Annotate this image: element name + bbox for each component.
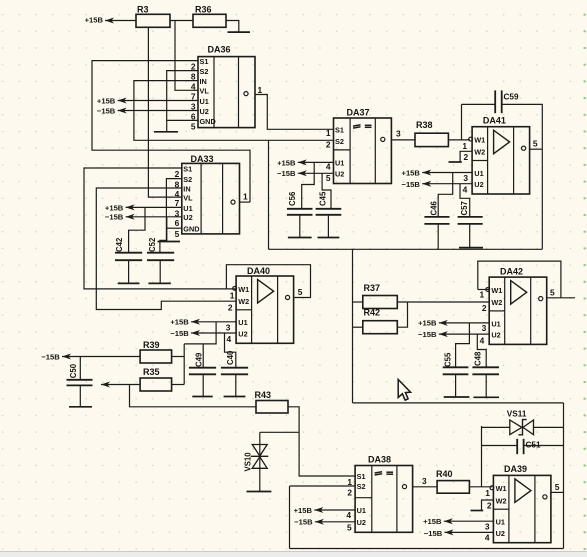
svg-text:R40: R40 [436,469,453,479]
power flag +15V (DA36 U1) [97,96,127,105]
power flag -15V (DA38 U2) [294,518,324,527]
svg-text:2: 2 [326,139,331,149]
svg-text:VS10: VS10 [244,452,253,472]
wire DA41 output rail down to mid rail [541,149,543,249]
wire DA37 output to R38 [391,139,415,141]
wire VS10 top to R43/DA38.S1 node [260,431,299,433]
power flag +15V (DA39 U1) [423,517,453,526]
ground bar (right of R36) [228,31,251,33]
wire DA36 S2 to ground [167,71,198,132]
power flag +15V (DA37 U1) [277,158,307,167]
svg-text:U1: U1 [183,204,192,213]
wire DA42 output pin 5 [547,297,575,299]
wire +15V to DA41 U1 [422,172,472,174]
power flag -15V (DA39 U2) [424,529,454,538]
svg-text:1: 1 [243,192,248,202]
ground bar (C56) [288,237,312,239]
resistor R35 [140,367,172,391]
wire -15V to DA37 U2 [298,172,334,174]
wire R43 right down to DA38 S1 [288,407,355,476]
wire C51 left [482,445,519,447]
svg-text:+15В: +15В [105,203,124,212]
power flag -15V (DA33 U2) [105,213,135,222]
ground bar (C52) [148,282,170,284]
svg-text:3: 3 [422,476,427,486]
ground bar (C50) [69,406,92,408]
svg-text:1: 1 [326,128,331,138]
svg-text:7: 7 [175,198,180,208]
power flag -15V (DA41 U2) [402,180,432,189]
capacitor C40 [221,350,248,396]
svg-text:S1: S1 [183,164,192,173]
svg-text:+15В: +15В [170,318,189,327]
ground bar (C40) [224,396,246,398]
svg-text:6: 6 [175,218,180,228]
resistor R37 [363,283,398,308]
capacitor C57 [458,201,483,247]
wire R39 right to node [172,356,185,358]
wire -15V to DA42 U2 [439,333,489,335]
wire DA33 output pin1 stub [240,201,251,203]
power flag +15V (DA33 U1) [105,203,135,212]
wire DA33 S2 to ground [166,179,181,242]
power flag +15V (DA40 U1) [170,318,200,327]
svg-text:4: 4 [485,533,490,543]
power flag +15V (DA38 U1) [294,506,324,515]
wire DA40 U1 down to R39/R35 node and C49 [184,322,216,344]
op-amp DA40 [233,266,294,343]
svg-text:4: 4 [326,162,331,172]
wire R3-R36 junction down to DA36 pin VL [175,21,198,91]
wire -15V to DA38 U2 [315,521,355,523]
svg-text:1: 1 [485,488,490,498]
svg-text:R3: R3 [137,4,149,14]
wire DA41 U2 to C57 [460,184,470,217]
bottom window bar [0,552,587,557]
wire feedback left segment to C59 [462,103,496,105]
svg-text:3: 3 [463,173,468,183]
power flag -15V (DA42 U2) [418,330,448,339]
node junction up to C59 feedback [461,104,463,139]
mouse cursor [398,380,410,401]
wire VS11 right [534,426,564,428]
svg-text:S2: S2 [335,137,344,146]
svg-text:1: 1 [480,289,485,299]
svg-text:U2: U2 [491,331,500,340]
svg-text:W2: W2 [474,148,485,157]
wire DA33 GND stub [166,227,181,229]
svg-text:+15В: +15В [423,517,442,526]
svg-text:DA37: DA37 [347,107,370,117]
wire rail drop down to bottom block [352,249,354,403]
svg-text:1: 1 [462,141,467,151]
svg-text:U1: U1 [200,97,209,106]
wire R42 right up to R37 wire [397,302,407,327]
transistor VS11 (bidirectional zener) [507,409,534,435]
svg-text:W1: W1 [238,285,249,294]
svg-text:R39: R39 [143,340,160,350]
power flag +15V (top left) [85,16,114,25]
ground bar (DA33) [158,241,181,243]
ground bar (C45) [318,237,340,239]
ground bar (C48) [473,396,499,398]
wire R38 to DA41 W1 [448,139,470,141]
svg-text:3: 3 [485,522,490,532]
wire DA33 U1 to C42 [129,207,145,252]
svg-text:2: 2 [228,302,233,312]
capacitor C46 [424,201,449,250]
wire -15V to DA36 U2 [118,110,198,112]
svg-text:−15В: −15В [41,352,60,361]
capacitor C55 [443,352,469,397]
DA42 feedback loop W1 to output [478,261,561,298]
wire DA38 output to R40 [413,486,438,488]
svg-text:C52: C52 [148,237,157,252]
wire DA33 U2 to C52 [160,217,167,253]
svg-text:DA33: DA33 [191,154,214,164]
resistor R36 [193,4,226,27]
wire R3 to R36 [170,20,193,22]
wire -15V to DA41 U2 [422,183,472,185]
svg-text:−15В: −15В [424,529,443,538]
op-amp DA39 [490,464,551,543]
svg-text:GND: GND [183,225,199,234]
arrow flag (R35 left) [101,382,110,388]
svg-text:4: 4 [463,184,468,194]
power flag -15V (DA36 U2) [97,106,127,115]
svg-text:S2: S2 [357,482,366,491]
wire VS11 left [482,426,510,428]
ground bar (C42) [118,282,140,284]
svg-text:+15В: +15В [294,506,313,515]
svg-text:4: 4 [191,82,196,92]
svg-text:S1: S1 [335,126,344,135]
wire bottom edge of bottom loop [290,548,564,550]
capacitor C45 [316,191,342,237]
svg-text:C48: C48 [473,351,482,366]
wire DA36 output pin1 to DA37 S1 [255,95,334,130]
wire -15V to DA40 U2 [191,332,236,334]
svg-text:VS11: VS11 [507,409,527,418]
svg-text:C42: C42 [115,237,124,252]
wire node vertical R39/R35 [183,344,185,385]
svg-text:DA39: DA39 [504,464,527,474]
svg-text:3: 3 [482,323,487,333]
DA40 feedback loop pin5 to W1 [226,265,310,298]
svg-text:U2: U2 [335,170,344,179]
wire R37 right to DA42 W2 [397,301,489,303]
wire +15V to DA42 U1 [439,322,489,324]
wire DA38 S2 [290,485,356,487]
svg-text:5: 5 [533,139,538,149]
svg-text:−15В: −15В [294,518,313,527]
svg-text:IN: IN [183,184,190,193]
svg-text:1: 1 [258,85,263,95]
resistor R43 [255,390,289,413]
wire +15V to DA40 U1 [191,321,236,323]
wire DA33 S1 loop to DA40 W1 [84,168,236,289]
svg-text:C55: C55 [444,352,453,367]
capacitor C59 [495,90,519,113]
wire -15V to DA39 U2 [445,531,494,533]
wire left edge up to DA38 S2 [289,486,291,549]
svg-text:W2: W2 [496,496,507,505]
svg-text:S2: S2 [200,67,209,76]
wire bottom rail of DA37/DA41 section [269,248,543,250]
svg-text:5: 5 [555,482,560,492]
svg-text:1: 1 [230,291,235,301]
resistor R3 [136,4,170,27]
svg-text:2: 2 [347,487,352,497]
svg-text:5: 5 [550,287,555,297]
svg-text:5: 5 [347,522,352,532]
svg-text:U2: U2 [496,529,505,538]
svg-text:+15В: +15В [402,168,421,177]
svg-text:U2: U2 [474,180,483,189]
power flag +15V (DA41 U1) [402,168,432,177]
svg-text:C40: C40 [226,350,235,365]
wire +15V to DA37 U1 [298,161,334,163]
ground bar (C49) [192,396,212,398]
IC DA36 (switch block) [191,45,255,132]
svg-text:5: 5 [298,287,303,297]
power flag -15V (DA37 U2) [277,169,307,178]
svg-text:U1: U1 [491,319,500,328]
svg-text:2: 2 [175,169,180,179]
svg-text:DA38: DA38 [368,455,391,465]
wire DA42 U1 to C55 [456,323,470,367]
wire DA41 output pin 5 [530,148,543,150]
svg-text:W1: W1 [496,484,507,493]
svg-text:S2: S2 [183,175,192,184]
capacitor C49 [189,352,216,396]
svg-text:U2: U2 [238,329,247,338]
svg-text:1: 1 [347,477,352,487]
wire +15V to DA33 U1 [126,206,182,208]
svg-text:W2: W2 [491,298,502,307]
power flag -15V (DA40 U2) [170,329,200,338]
wire junction DA37-S2 line down to rail [268,140,270,249]
wire DA42 W1 stub [478,289,489,291]
svg-text:2: 2 [487,500,492,510]
svg-text:C59: C59 [504,92,519,101]
svg-text:S1: S1 [200,57,209,66]
wire DA36 GND stub [167,119,198,121]
svg-text:DA40: DA40 [247,266,270,276]
ground bar (C55) [444,396,470,398]
svg-text:−15В: −15В [105,213,124,222]
svg-text:2: 2 [464,152,469,162]
svg-text:2: 2 [482,303,487,313]
wire -15V to DA33 U2 [126,216,182,218]
power flag +15V (DA42 U1) [418,318,448,327]
wire DA36 IN down and right to DA37 S2 [134,81,334,141]
svg-text:5: 5 [175,229,180,239]
wire C49 top lead [202,344,204,368]
capacitor C51 [517,439,541,454]
svg-text:U1: U1 [496,518,505,527]
svg-text:R42: R42 [364,307,381,317]
svg-text:IN: IN [200,77,207,86]
svg-text:4: 4 [480,336,485,346]
svg-text:R35: R35 [143,367,160,377]
svg-text:4: 4 [227,334,232,344]
wire R35 node down to R43 [130,385,257,407]
capacitor C42 [115,237,142,283]
DA41 W2 ground stub [460,151,472,162]
svg-text:R38: R38 [416,120,433,130]
IC DA37 (comparator) [334,107,392,183]
wire node up to VS11/C51 [481,426,483,487]
IC DA33 (switch block) [175,154,240,239]
svg-text:VL: VL [200,87,210,96]
svg-text:+15В: +15В [85,16,104,25]
wire DA39 output pin 5 [551,491,564,493]
wire top of bottom block [353,402,564,404]
svg-text:W1: W1 [491,286,502,295]
wire DA40 U2 to C40 [225,333,236,368]
wire R42 left stub [353,326,363,328]
wire +15V to DA38 U1 [314,509,355,511]
svg-text:VL: VL [183,194,193,203]
svg-text:4: 4 [346,510,351,520]
sheet boundary green dashes (right edge) [584,14,586,550]
svg-text:U1: U1 [357,506,366,515]
capacitor C50 [67,357,93,407]
wire DA37 U2 to C45 [322,173,331,209]
power flag -15V (left, C50/R39 net) [41,352,71,361]
svg-text:U1: U1 [335,159,344,168]
wire +15V to R3 [105,20,136,22]
wire +15V to DA39 U1 [444,520,494,522]
resistor R42 [363,307,398,333]
svg-text:3: 3 [226,323,231,333]
transistor VS10 (bidirectional diode) [244,432,269,491]
wire R36 right to ground stub [226,21,239,32]
svg-text:U2: U2 [200,107,209,116]
wire DA42 U2 to C48 [477,334,486,367]
wire right edge of bottom loop [563,403,565,549]
svg-text:DA36: DA36 [208,45,231,55]
svg-text:U1: U1 [238,318,247,327]
ground bar (DA41 W2) [449,161,462,163]
op-amp DA41 [469,115,530,194]
wire +15V to DA36 U1 [118,100,198,102]
ground bar (VS10) [247,491,272,493]
svg-text:−15В: −15В [418,330,437,339]
svg-text:W2: W2 [238,297,249,306]
resistor R38 [415,120,448,147]
capacitor C56 [287,191,313,237]
capacitor C48 [472,351,499,397]
svg-text:7: 7 [191,91,196,101]
svg-text:−15В: −15В [277,169,296,178]
svg-text:R43: R43 [255,390,272,400]
svg-text:3: 3 [396,129,401,139]
wire DA33 IN loop to DA40 W2 [96,188,236,310]
svg-text:−15В: −15В [402,180,421,189]
svg-text:C46: C46 [429,201,438,216]
wire R35 right to node [172,384,185,386]
ground bar (DA36) [154,131,178,133]
svg-text:U2: U2 [183,213,192,222]
DA39 W2 ground stub [482,500,494,511]
svg-text:R36: R36 [195,4,212,14]
wire DA37 U1 to C56 [302,162,315,208]
ground bar (C57) [459,247,483,249]
svg-text:5: 5 [191,121,196,131]
svg-text:DA42: DA42 [500,267,523,277]
capacitor C52 [147,237,174,283]
svg-text:C45: C45 [318,191,327,206]
svg-text:C50: C50 [69,363,78,378]
svg-text:+15В: +15В [277,158,296,167]
svg-text:R37: R37 [364,283,381,293]
svg-text:GND: GND [200,117,216,126]
resistor R40 [436,469,469,493]
wire DA41 U1 to C46 [438,173,453,217]
svg-text:C57: C57 [460,201,469,215]
ground bar (DA39 W2) [471,510,484,512]
svg-text:S1: S1 [357,472,366,481]
wire R37 left stub [353,301,363,303]
svg-text:C56: C56 [288,191,297,206]
wire junction under R3 down to DA33 pin VL [148,27,181,197]
svg-text:C49: C49 [194,352,203,367]
svg-text:+15В: +15В [418,318,437,327]
wire C51 right [524,445,564,447]
svg-text:+15В: +15В [97,96,116,105]
svg-text:−15В: −15В [97,106,116,115]
svg-text:5: 5 [326,173,331,183]
IC DA38 (comparator) [355,455,413,533]
wire R35 left [101,384,140,386]
svg-text:−15В: −15В [170,329,189,338]
op-amp DA42 [486,267,547,345]
svg-text:U1: U1 [474,169,483,178]
svg-text:U2: U2 [357,518,366,527]
wire DA36 S1 loop from DA33 output [92,61,250,203]
wire R40 to DA39 W1 [469,486,492,488]
resistor R39 [140,340,172,363]
svg-text:W1: W1 [474,136,485,145]
wire C59 to DA41 output rail [502,104,543,149]
wire -15V to R39 [62,356,140,358]
svg-text:DA41: DA41 [483,115,506,125]
